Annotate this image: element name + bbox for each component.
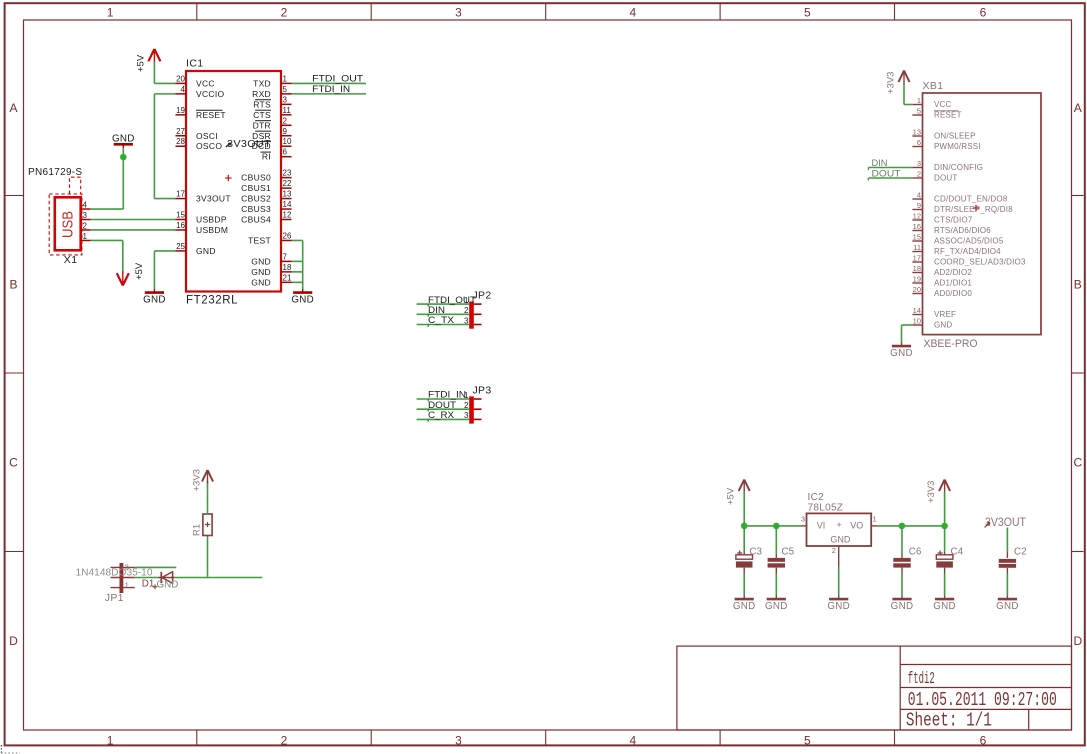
- svg-text:USB: USB: [61, 211, 77, 238]
- svg-text:CBUS0: CBUS0: [241, 173, 271, 183]
- svg-text:11: 11: [913, 243, 921, 252]
- svg-text:CTS/DIO7: CTS/DIO7: [934, 216, 973, 225]
- svg-text:JP3: JP3: [473, 385, 492, 397]
- svg-text:OSCI: OSCI: [196, 131, 218, 141]
- svg-text:+5V: +5V: [134, 262, 145, 280]
- svg-text:3V3OUT: 3V3OUT: [227, 139, 271, 150]
- svg-text:1: 1: [917, 96, 921, 105]
- svg-text:78L05Z: 78L05Z: [808, 503, 844, 514]
- svg-text:2: 2: [464, 306, 469, 315]
- svg-text:R1: R1: [192, 524, 203, 536]
- svg-text:6: 6: [917, 138, 921, 147]
- svg-text:20: 20: [176, 74, 185, 83]
- svg-text:6: 6: [980, 5, 987, 19]
- svg-text:3: 3: [917, 159, 921, 168]
- svg-text:15: 15: [176, 211, 185, 220]
- svg-text:JP2: JP2: [473, 290, 492, 302]
- svg-text:3: 3: [464, 411, 469, 420]
- svg-text:D: D: [9, 634, 18, 648]
- svg-text:GND: GND: [765, 601, 788, 612]
- svg-text:+3V3: +3V3: [926, 481, 937, 503]
- svg-text:5: 5: [917, 106, 921, 115]
- svg-text:C5: C5: [782, 547, 795, 558]
- svg-text:13: 13: [283, 190, 292, 199]
- svg-text:3V3OUT: 3V3OUT: [196, 194, 231, 204]
- svg-text:Sheet: 1/1: Sheet: 1/1: [906, 710, 992, 732]
- svg-text:2: 2: [83, 221, 88, 230]
- svg-text:GND: GND: [733, 601, 756, 612]
- svg-text:C4: C4: [951, 547, 964, 558]
- svg-text:C: C: [1073, 456, 1082, 470]
- svg-text:GND: GND: [251, 277, 271, 287]
- svg-text:CTS: CTS: [253, 110, 271, 120]
- svg-text:VREF: VREF: [934, 310, 956, 319]
- svg-text:2: 2: [281, 5, 288, 19]
- svg-text:25: 25: [176, 242, 185, 251]
- svg-text:D: D: [1073, 634, 1082, 648]
- svg-text:2: 2: [917, 169, 921, 178]
- svg-text:DTR/SLEEP_RQ/DI8: DTR/SLEEP_RQ/DI8: [934, 205, 1013, 214]
- svg-text:D1: D1: [142, 579, 155, 590]
- svg-text:9: 9: [917, 201, 921, 210]
- svg-text:DIN/CONFIG: DIN/CONFIG: [934, 163, 983, 172]
- svg-text:2: 2: [464, 401, 469, 410]
- svg-text:3: 3: [464, 316, 469, 325]
- svg-text:DTR: DTR: [253, 120, 271, 130]
- svg-text:C_RX: C_RX: [428, 410, 455, 421]
- svg-text:18: 18: [913, 264, 921, 273]
- svg-text:16: 16: [176, 221, 185, 230]
- svg-text:GND: GND: [996, 601, 1019, 612]
- svg-text:11: 11: [283, 106, 292, 115]
- svg-text:DOUT: DOUT: [934, 174, 957, 183]
- svg-text:RF_TX/AD4/DIO4: RF_TX/AD4/DIO4: [934, 247, 1001, 256]
- svg-text:AD2/DIO2: AD2/DIO2: [934, 268, 972, 277]
- svg-text:12: 12: [913, 211, 921, 220]
- svg-text:21: 21: [283, 273, 292, 282]
- svg-text:GND: GND: [251, 256, 271, 266]
- svg-text:GND: GND: [251, 267, 271, 277]
- svg-text:A: A: [9, 101, 17, 115]
- svg-text:4: 4: [630, 5, 637, 19]
- svg-text:17: 17: [176, 190, 185, 199]
- svg-text:CBUS2: CBUS2: [241, 194, 271, 204]
- svg-text:VO: VO: [850, 520, 863, 530]
- svg-text:6: 6: [283, 148, 288, 157]
- svg-text:GND: GND: [291, 295, 314, 306]
- svg-text:RESET: RESET: [934, 111, 962, 120]
- svg-text:PN61729-S: PN61729-S: [28, 167, 82, 178]
- svg-text:C_TX: C_TX: [428, 315, 455, 326]
- svg-text:2: 2: [832, 546, 836, 555]
- svg-text:AD0/DIO0: AD0/DIO0: [934, 289, 972, 298]
- svg-text:IC2: IC2: [808, 492, 825, 503]
- svg-text:GND: GND: [933, 601, 956, 612]
- svg-text:9: 9: [283, 127, 288, 136]
- svg-text:RTS: RTS: [253, 99, 271, 109]
- svg-text:USBDM: USBDM: [196, 225, 228, 235]
- svg-text:FTDI_IN: FTDI_IN: [312, 84, 350, 95]
- svg-text:B: B: [1074, 278, 1082, 292]
- svg-text:GND: GND: [934, 321, 952, 330]
- svg-text:C3: C3: [749, 547, 762, 558]
- svg-text:13: 13: [913, 127, 921, 136]
- svg-text:26: 26: [283, 231, 292, 240]
- svg-text:VCC: VCC: [196, 78, 215, 88]
- svg-text:17: 17: [913, 253, 921, 262]
- svg-text:C2: C2: [1014, 547, 1027, 558]
- svg-text:AD1/DIO1: AD1/DIO1: [934, 279, 972, 288]
- svg-text:4: 4: [181, 85, 186, 94]
- svg-text:RXD: RXD: [252, 89, 271, 99]
- svg-text:1N4148DO35-10: 1N4148DO35-10: [76, 567, 154, 578]
- svg-text:10: 10: [913, 316, 921, 325]
- svg-text:USBDP: USBDP: [196, 215, 227, 225]
- svg-text:RI: RI: [262, 152, 271, 162]
- svg-text:GND: GND: [830, 535, 851, 545]
- svg-text:1: 1: [107, 733, 114, 747]
- svg-text:ftdi2: ftdi2: [908, 670, 935, 689]
- svg-text:GND: GND: [827, 601, 850, 612]
- svg-text:15: 15: [913, 232, 921, 241]
- svg-text:CBUS1: CBUS1: [241, 183, 271, 193]
- svg-text:+3V3: +3V3: [886, 72, 897, 94]
- svg-text:5: 5: [804, 733, 811, 747]
- svg-text:DOUT: DOUT: [872, 169, 901, 180]
- svg-text:VI: VI: [817, 520, 826, 530]
- svg-text:4: 4: [83, 200, 88, 209]
- svg-text:27: 27: [176, 127, 185, 136]
- svg-text:GND: GND: [891, 601, 914, 612]
- svg-text:C6: C6: [909, 547, 922, 558]
- svg-text:4: 4: [630, 733, 637, 747]
- svg-text:+5V: +5V: [136, 54, 147, 72]
- svg-text:GND: GND: [890, 348, 913, 359]
- svg-text:3: 3: [283, 95, 288, 104]
- svg-text:OSCO: OSCO: [196, 141, 222, 151]
- svg-text:3: 3: [801, 514, 805, 523]
- svg-text:14: 14: [913, 306, 921, 315]
- svg-text:VCC: VCC: [934, 100, 952, 109]
- svg-text:28: 28: [176, 137, 185, 146]
- svg-text:5: 5: [283, 85, 288, 94]
- svg-text:DIN: DIN: [872, 158, 888, 169]
- svg-text:6: 6: [980, 733, 987, 747]
- svg-text:RESET: RESET: [196, 110, 226, 120]
- svg-text:ASSOC/AD5/DIO5: ASSOC/AD5/DIO5: [934, 237, 1004, 246]
- svg-text:X1: X1: [64, 254, 78, 266]
- svg-text:22: 22: [283, 179, 292, 188]
- svg-text:CBUS3: CBUS3: [241, 204, 271, 214]
- svg-text:19: 19: [176, 106, 185, 115]
- svg-text:+: +: [837, 520, 842, 530]
- svg-text:PWM0/RSSI: PWM0/RSSI: [934, 142, 981, 151]
- svg-text:CBUS4: CBUS4: [241, 215, 271, 225]
- svg-text:+5V: +5V: [726, 487, 737, 505]
- svg-text:3V3OUT: 3V3OUT: [985, 515, 1027, 529]
- svg-text:ON/SLEEP: ON/SLEEP: [934, 132, 976, 141]
- svg-text:18: 18: [283, 263, 292, 272]
- svg-text:10: 10: [283, 137, 292, 146]
- svg-text:23: 23: [283, 169, 292, 178]
- svg-text:4: 4: [917, 190, 921, 199]
- svg-text:XB1: XB1: [923, 80, 944, 92]
- svg-text:GND: GND: [157, 579, 179, 590]
- svg-text:1: 1: [83, 232, 88, 241]
- svg-text:IC1: IC1: [186, 58, 204, 70]
- svg-text:XBEE-PRO: XBEE-PRO: [924, 338, 978, 350]
- svg-text:16: 16: [913, 222, 921, 231]
- svg-text:B: B: [9, 278, 17, 292]
- svg-text:14: 14: [283, 200, 292, 209]
- svg-text:3: 3: [455, 5, 462, 19]
- svg-text:3: 3: [455, 733, 462, 747]
- svg-text:7: 7: [283, 252, 288, 261]
- svg-text:01.05.2011 09:27:00: 01.05.2011 09:27:00: [908, 689, 1057, 711]
- svg-text:19: 19: [913, 274, 921, 283]
- svg-text:FT232RL: FT232RL: [186, 295, 238, 307]
- svg-text:TEST: TEST: [248, 235, 271, 245]
- svg-text:1: 1: [283, 74, 288, 83]
- svg-text:JP1: JP1: [105, 592, 124, 604]
- svg-text:3: 3: [83, 211, 88, 220]
- svg-text:+3V3: +3V3: [192, 469, 203, 491]
- svg-text:CD/DOUT_EN/DO8: CD/DOUT_EN/DO8: [934, 195, 1008, 204]
- svg-text:COORD_SEL/AD3/DIO3: COORD_SEL/AD3/DIO3: [934, 258, 1026, 267]
- svg-text:C: C: [9, 456, 18, 470]
- svg-text:20: 20: [913, 285, 921, 294]
- svg-text:TXD: TXD: [253, 78, 271, 88]
- svg-text:2: 2: [281, 733, 288, 747]
- svg-text:GND: GND: [196, 246, 216, 256]
- svg-text:VCCIO: VCCIO: [196, 89, 225, 99]
- svg-text:RTS/AD6/DIO6: RTS/AD6/DIO6: [934, 226, 991, 235]
- svg-text:1: 1: [873, 514, 877, 523]
- svg-text:A: A: [1074, 101, 1082, 115]
- svg-text:1: 1: [125, 581, 129, 590]
- svg-text:1: 1: [107, 5, 114, 19]
- svg-text:GND: GND: [143, 295, 166, 306]
- svg-text:5: 5: [804, 5, 811, 19]
- svg-text:GND: GND: [112, 133, 135, 144]
- svg-text:2: 2: [283, 116, 288, 125]
- svg-text:FTDI_OUT: FTDI_OUT: [312, 74, 363, 85]
- svg-text:12: 12: [283, 211, 292, 220]
